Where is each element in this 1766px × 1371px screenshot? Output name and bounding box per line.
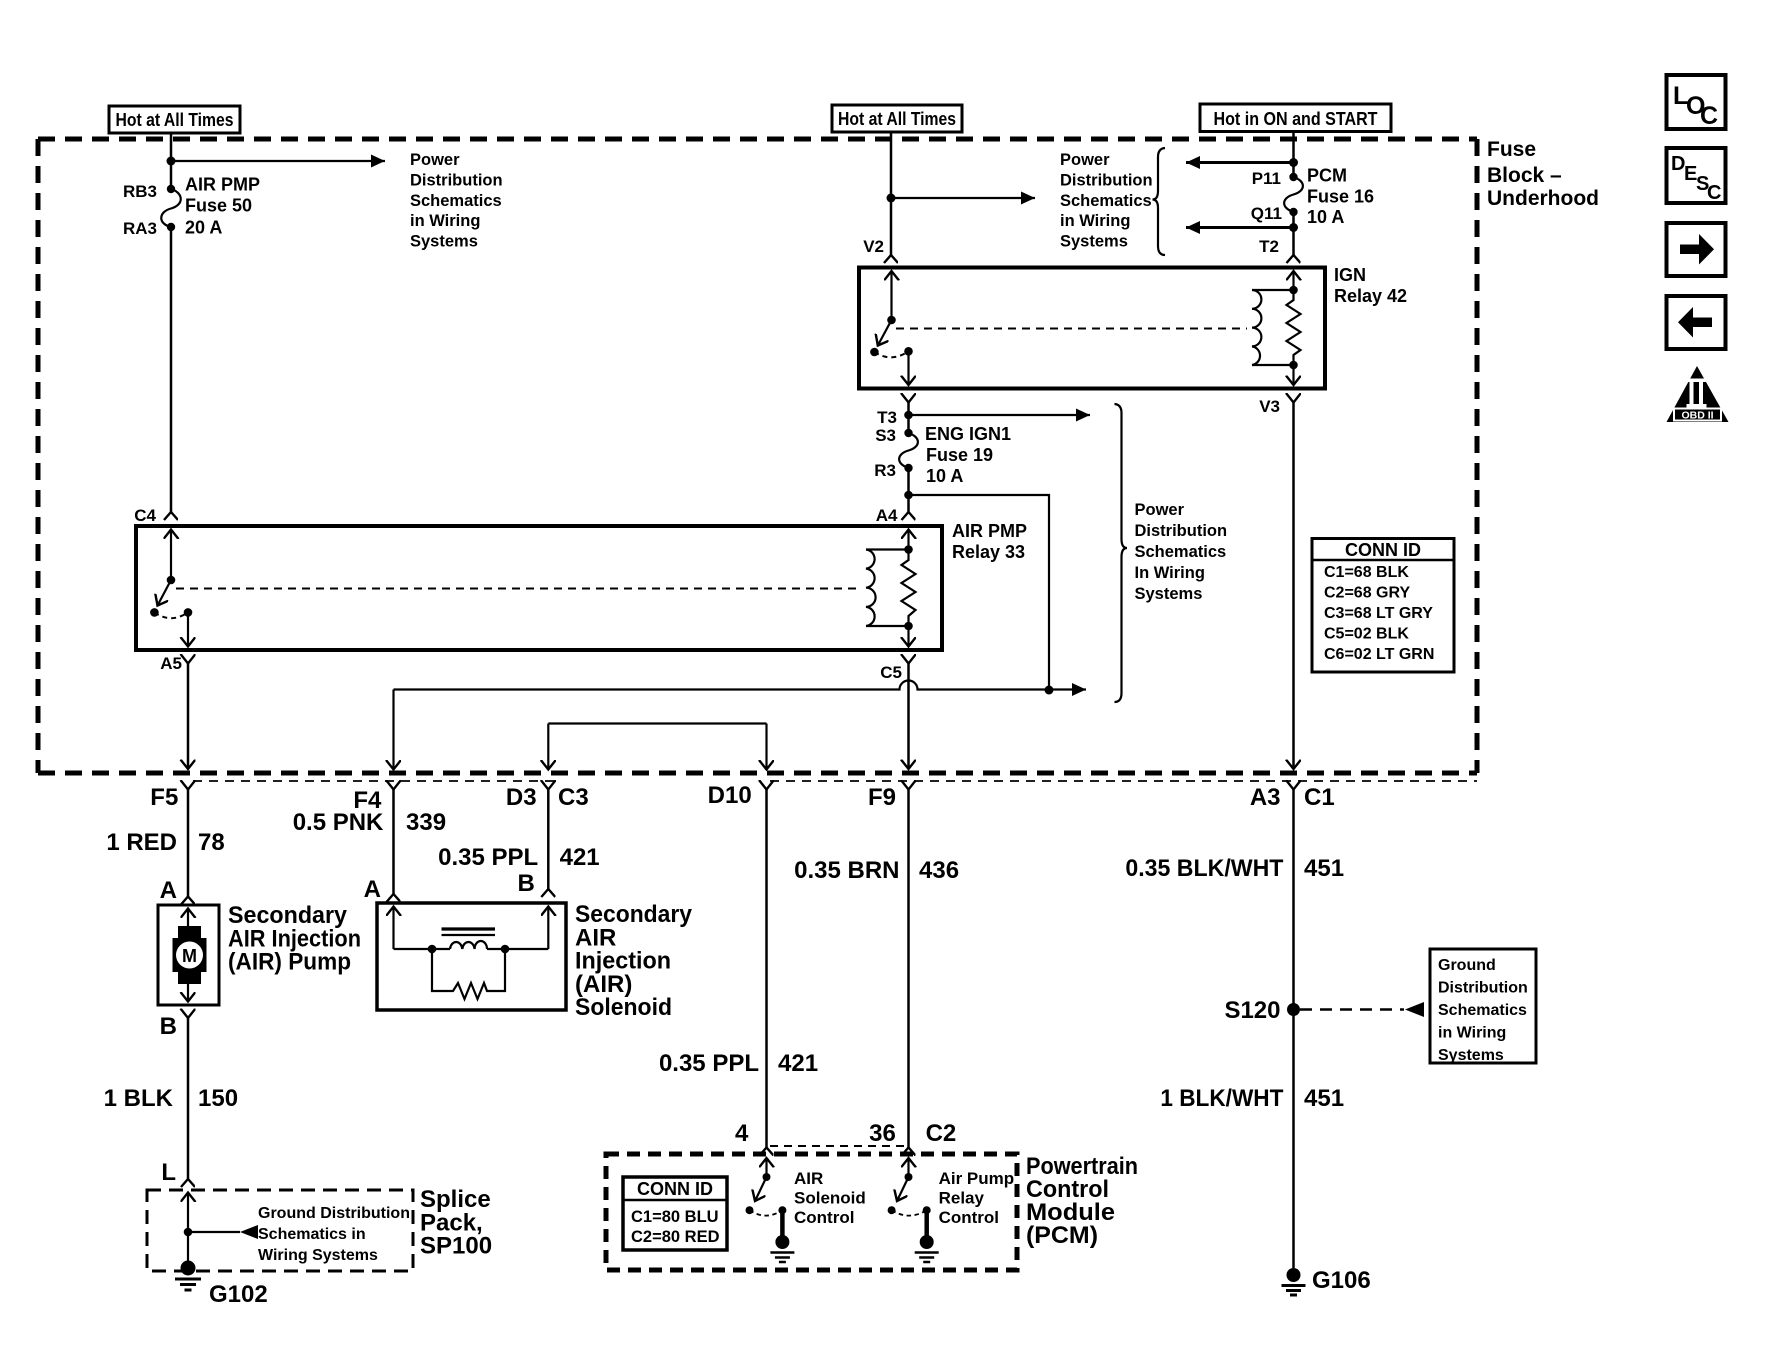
PCM dashed box <box>606 1154 1017 1270</box>
label ENG IGN1 Fuse 19 10 A <box>925 424 1011 486</box>
svg-text:0.35 BRN: 0.35 BRN <box>794 857 899 884</box>
label PCM Fuse 16 10 A <box>1307 166 1374 228</box>
node relay 33 coil bottom <box>904 622 913 631</box>
svg-text:Hot at All Times: Hot at All Times <box>116 110 234 130</box>
svg-text:CONN ID: CONN ID <box>637 1179 713 1199</box>
wire F4 drop from bus to border <box>392 690 394 770</box>
svg-text:Distribution: Distribution <box>1060 171 1153 189</box>
resistor relay 42 internal <box>1287 290 1301 365</box>
wire to ground (pin 36 driver) <box>924 1210 929 1242</box>
svg-text:T3: T3 <box>877 408 897 427</box>
icon arrow right <box>1667 223 1726 276</box>
node T3 branch <box>904 411 913 420</box>
ground G102 <box>175 1261 268 1309</box>
svg-text:Fuse 19: Fuse 19 <box>926 445 993 465</box>
wire arrow left (upper) to Power Distribution <box>1186 161 1294 164</box>
svg-text:in Wiring: in Wiring <box>1438 1025 1506 1042</box>
wire C3 drop from bridge to border <box>547 724 549 770</box>
connector A3/C1 <box>1292 790 1295 1269</box>
connector F9 <box>907 790 910 1148</box>
node junction top left <box>167 157 176 166</box>
solenoid core lines <box>442 927 496 930</box>
label Hot at All Times (left) <box>109 106 240 133</box>
switch contact output (pin 4) <box>778 1206 786 1214</box>
svg-text:Fuse: Fuse <box>1487 138 1536 161</box>
svg-text:C2=68 GRY: C2=68 GRY <box>1324 585 1410 602</box>
reference box Ground Distribution Schematics in Wiring Systems <box>1430 949 1536 1064</box>
svg-text:Systems: Systems <box>1438 1047 1504 1064</box>
wire from Hot at All Times down to fuse 50 <box>170 133 173 189</box>
switch contact output (pin 36) <box>923 1206 931 1214</box>
relay 42 coil feed entry (from T2) <box>1292 271 1294 290</box>
svg-text:OBD II: OBD II <box>1681 410 1713 422</box>
svg-text:Underhood: Underhood <box>1487 187 1599 210</box>
fuse AIR PMP Fuse 50 element <box>161 189 181 227</box>
wire splice to ground distribution reference <box>188 1231 240 1233</box>
svg-text:A3: A3 <box>1250 784 1281 811</box>
label Hot in ON and START <box>1200 104 1391 132</box>
wire from Hot at All Times (middle) down to V2 <box>890 132 893 255</box>
node bus / A4 elbow junction <box>1045 686 1054 695</box>
svg-text:S120: S120 <box>1224 997 1280 1024</box>
relay 42 switch arm <box>878 320 892 346</box>
node P11 branch <box>1289 158 1298 167</box>
svg-text:421: 421 <box>560 844 600 871</box>
relay 42 switch contact (output) <box>904 347 913 356</box>
svg-text:4: 4 <box>735 1120 749 1147</box>
fuse ENG IGN1 Fuse 19 element <box>899 433 918 468</box>
relay 42 switch common entry (from V2) <box>890 271 892 320</box>
relay 42 switch actuated-position dashed arc <box>874 351 908 357</box>
svg-text:V2: V2 <box>863 237 884 256</box>
label IGN Relay 42 <box>1334 265 1407 306</box>
wire relay 33 coil return to box bottom <box>907 626 909 647</box>
solenoid coil rail <box>394 948 451 950</box>
label Power Distribution Schematics in Wiring Systems (top left) <box>410 151 503 251</box>
node A4 branch <box>904 491 913 500</box>
wire out of pump <box>187 984 189 1002</box>
svg-text:RA3: RA3 <box>123 219 157 238</box>
PCM driver: AIR Solenoid Control switch entry <box>765 1158 767 1177</box>
connector F4 <box>392 790 395 895</box>
svg-text:Hot at All Times: Hot at All Times <box>838 109 956 129</box>
label Secondary AIR Injection (AIR) Pump <box>228 902 361 976</box>
svg-text:Schematics: Schematics <box>1438 1002 1527 1019</box>
svg-text:C1: C1 <box>1304 784 1335 811</box>
relay 42 coil top stub <box>1252 289 1294 291</box>
fuse F16 terminal Q11 <box>1289 208 1297 216</box>
svg-text:T2: T2 <box>1259 237 1279 256</box>
fuse PCM Fuse 16 terminal P11 <box>1289 173 1297 181</box>
svg-text:1 BLK/WHT: 1 BLK/WHT <box>1160 1085 1283 1112</box>
svg-text:in Wiring: in Wiring <box>410 212 480 230</box>
PCM CONN ID table <box>623 1177 727 1250</box>
fuse F50 terminal RB3 <box>167 185 175 193</box>
svg-text:C3=68 LT GRY: C3=68 LT GRY <box>1324 605 1433 622</box>
splice pack dashed box <box>147 1190 413 1271</box>
svg-text:Relay 33: Relay 33 <box>952 542 1025 562</box>
svg-text:RB3: RB3 <box>123 182 157 201</box>
node S120 <box>1287 1003 1300 1016</box>
svg-text:IGN: IGN <box>1334 265 1366 285</box>
svg-text:Block –: Block – <box>1487 164 1562 187</box>
svg-text:A5: A5 <box>160 654 182 673</box>
wire fuse 19 to connector A4 <box>907 468 910 512</box>
fuse F19 terminal R3 <box>904 464 912 472</box>
svg-text:G106: G106 <box>1312 1267 1371 1294</box>
wire arrow to Power Distribution Schematics (top middle) <box>891 197 1035 199</box>
svg-text:Schematics: Schematics <box>410 192 502 210</box>
svg-text:Q11: Q11 <box>1251 204 1282 223</box>
relay 33 switch common entry (from C4) <box>170 530 172 581</box>
svg-text:D10: D10 <box>708 782 752 809</box>
svg-text:Power: Power <box>410 151 460 169</box>
svg-text:Ground Distribution: Ground Distribution <box>258 1205 410 1222</box>
svg-text:451: 451 <box>1304 855 1344 882</box>
relay 33 coil top stub <box>866 548 909 550</box>
wire solenoid pin A entry <box>392 907 394 950</box>
svg-text:P11: P11 <box>1252 169 1281 188</box>
svg-text:C6=02 LT GRN: C6=02 LT GRN <box>1324 646 1434 663</box>
svg-text:Distribution: Distribution <box>410 171 503 189</box>
brace for P11/Q11 Power Distribution reference <box>1153 148 1166 255</box>
node solenoid coil left <box>428 945 437 954</box>
svg-text:Power: Power <box>1135 501 1185 519</box>
svg-text:Solenoid: Solenoid <box>575 994 672 1021</box>
relay 33 coil winding <box>866 550 876 627</box>
relay 33 switch contact (output) <box>184 608 193 617</box>
switch arm (pin 36) <box>897 1177 909 1201</box>
wire arrow to Power Distribution Schematics (top left) <box>171 160 385 162</box>
relay box IGN Relay 42 <box>859 268 1325 389</box>
label Power Distribution Schematics In Wiring Systems (middle right) <box>1135 501 1228 603</box>
svg-text:S3: S3 <box>875 426 896 445</box>
svg-text:PCM: PCM <box>1307 166 1347 186</box>
node Q11 branch <box>1289 223 1298 232</box>
relay box AIR PMP Relay 33 <box>136 526 942 650</box>
svg-text:V3: V3 <box>1259 397 1280 416</box>
label Powertrain Control Module (PCM) <box>1026 1153 1138 1249</box>
PCM connector C2 thin dashed line <box>770 1145 905 1147</box>
wire arrow right from T3 to Power Distribution <box>909 414 1091 416</box>
svg-text:Distribution: Distribution <box>1135 522 1228 540</box>
svg-text:C: C <box>1700 102 1718 130</box>
wire solenoid pin B entry <box>547 907 549 950</box>
label AIR Solenoid Control <box>794 1169 866 1227</box>
label Splice Pack, SP100 <box>420 1186 492 1260</box>
svg-text:C: C <box>1707 182 1721 204</box>
svg-text:M: M <box>182 946 197 966</box>
svg-text:in Wiring: in Wiring <box>1060 212 1130 230</box>
svg-text:Hot in ON and START: Hot in ON and START <box>1214 109 1378 129</box>
svg-text:B: B <box>160 1013 177 1040</box>
node relay 33 coil top <box>904 545 913 554</box>
label Hot at All Times (middle) <box>832 105 962 132</box>
connector F5 <box>187 790 190 897</box>
node solenoid coil right <box>501 945 510 954</box>
svg-text:Ground: Ground <box>1438 957 1496 974</box>
component box AIR solenoid <box>377 903 566 1010</box>
svg-text:C2=80 RED: C2=80 RED <box>631 1228 720 1246</box>
svg-text:Schematics: Schematics <box>1135 543 1227 561</box>
resistor solenoid suppression <box>432 949 505 999</box>
solenoid coil winding <box>450 941 487 949</box>
label Fuse Block - Underhood <box>1487 138 1599 210</box>
svg-text:C2: C2 <box>926 1120 957 1147</box>
label Power Distribution Schematics in Wiring Systems (top middle) <box>1060 151 1153 251</box>
svg-text:Relay: Relay <box>939 1189 985 1208</box>
fuse F50 terminal RA3 <box>167 223 175 231</box>
svg-text:AIR: AIR <box>794 1169 823 1188</box>
label AIR PMP Fuse 50 20 A <box>185 175 260 238</box>
svg-text:Wiring Systems: Wiring Systems <box>258 1247 378 1264</box>
svg-text:150: 150 <box>198 1085 238 1112</box>
node relay 42 coil top <box>1289 286 1298 295</box>
svg-text:C3: C3 <box>558 784 589 811</box>
switch arm (pin 4) <box>755 1177 767 1201</box>
relay 42 coil winding <box>1252 290 1261 365</box>
label Air Pump Relay Control <box>939 1169 1015 1227</box>
component box AIR pump <box>158 905 219 1005</box>
svg-text:436: 436 <box>919 857 959 884</box>
svg-text:Power: Power <box>1060 151 1110 169</box>
svg-text:Control: Control <box>794 1208 854 1227</box>
connector T3 (below relay 42) <box>907 403 910 434</box>
svg-text:C5=02 BLK: C5=02 BLK <box>1324 626 1409 643</box>
switch contact rest (pin 4) <box>746 1206 754 1214</box>
svg-text:Schematics in: Schematics in <box>258 1226 366 1243</box>
svg-text:CONN ID: CONN ID <box>1345 540 1421 560</box>
svg-text:1 BLK: 1 BLK <box>104 1085 174 1112</box>
relay 33 switch pivot <box>167 576 176 585</box>
label Ground Distribution Schematics in Wiring Systems (splice) <box>258 1205 410 1264</box>
relay 33 coil feed entry (from A4) <box>907 530 909 550</box>
svg-text:10 A: 10 A <box>926 466 963 486</box>
svg-text:Schematics: Schematics <box>1060 192 1152 210</box>
svg-text:A: A <box>364 876 381 903</box>
relay 33 switch arm <box>158 580 172 606</box>
svg-text:Distribution: Distribution <box>1438 980 1528 997</box>
svg-text:Air Pump: Air Pump <box>939 1169 1015 1188</box>
fuse PCM Fuse 16 element <box>1284 177 1303 212</box>
relay 42 switch contact (rest) <box>870 348 879 357</box>
connector A5 below relay 33 <box>187 664 190 770</box>
svg-text:36: 36 <box>869 1120 896 1147</box>
connector D10 <box>765 790 768 1148</box>
motor M body <box>173 926 207 984</box>
svg-text:Systems: Systems <box>1060 233 1128 251</box>
icon OBD II <box>1667 366 1729 422</box>
wire to ground (pin 4 driver) <box>780 1210 785 1242</box>
svg-text:1 RED: 1 RED <box>106 829 177 856</box>
svg-text:R3: R3 <box>874 461 896 480</box>
wire fuse16 to T2 <box>1292 212 1295 255</box>
wire arrow left (lower) to Power Distribution <box>1186 226 1294 229</box>
svg-text:A4: A4 <box>876 506 898 525</box>
svg-text:AIR PMP: AIR PMP <box>185 175 260 195</box>
svg-text:(PCM): (PCM) <box>1026 1222 1098 1249</box>
svg-text:(AIR) Pump: (AIR) Pump <box>228 949 351 976</box>
wire relay 42 output to box bottom <box>907 351 909 385</box>
svg-text:20 A: 20 A <box>185 218 222 238</box>
svg-text:10 A: 10 A <box>1307 207 1344 227</box>
icon arrow left <box>1667 296 1726 349</box>
svg-text:421: 421 <box>778 1050 818 1077</box>
wire into splice pack <box>187 1193 189 1269</box>
svg-text:Fuse 50: Fuse 50 <box>185 196 252 216</box>
svg-text:Fuse 16: Fuse 16 <box>1307 187 1374 207</box>
icon DESC <box>1667 148 1726 204</box>
wire from Hot in ON and START down <box>1292 132 1295 178</box>
svg-text:0.5 PNK: 0.5 PNK <box>293 809 384 836</box>
svg-text:F5: F5 <box>150 784 178 811</box>
connector B below pump <box>187 1018 190 1179</box>
switch pivot (pin 4) <box>763 1173 771 1181</box>
svg-text:A: A <box>160 877 177 904</box>
svg-text:L: L <box>161 1159 176 1186</box>
connector V3 (below relay 42) + wire down to A3/C1 <box>1292 403 1295 770</box>
resistor relay 33 internal <box>902 550 916 627</box>
svg-text:C1=80 BLU: C1=80 BLU <box>631 1208 719 1226</box>
connector D3/C3 <box>547 790 550 890</box>
fuse ENG IGN1 Fuse 19 terminal S3 <box>904 429 912 437</box>
switch pivot (pin 36) <box>905 1173 913 1181</box>
connector C5 below relay 33, wire to F9 <box>907 664 910 770</box>
svg-text:SP100: SP100 <box>420 1233 492 1260</box>
svg-text:78: 78 <box>198 829 225 856</box>
relay 33 actuation dashed link <box>176 588 861 590</box>
svg-text:Systems: Systems <box>1135 585 1203 603</box>
ground (PCM pin 4 driver) <box>770 1235 794 1262</box>
svg-text:B: B <box>518 870 535 897</box>
svg-text:451: 451 <box>1304 1085 1344 1112</box>
relay 33 coil bottom stub <box>866 625 909 627</box>
ground G106 <box>1282 1267 1371 1295</box>
svg-text:G102: G102 <box>209 1281 268 1308</box>
wire fuse 50 to connector C4 <box>170 227 173 512</box>
svg-text:In Wiring: In Wiring <box>1135 564 1205 582</box>
svg-text:Relay 42: Relay 42 <box>1334 286 1407 306</box>
fuse block bottom connector thin dashed line <box>193 780 557 782</box>
wire ignition feed bus (A4 to F4 drop and reference arrow), hops over C5 wire <box>394 681 1087 690</box>
wire into pump <box>187 909 189 927</box>
svg-text:D3: D3 <box>506 784 537 811</box>
relay 42 coil bottom stub <box>1252 364 1294 366</box>
relay 42 switch pivot <box>887 316 896 325</box>
wire D10 drop from bridge to border <box>765 724 767 770</box>
node splice junction <box>184 1228 193 1237</box>
wire A4 elbow to ignition feed bus <box>909 495 1050 690</box>
svg-text:Solenoid: Solenoid <box>794 1189 866 1208</box>
svg-text:C4: C4 <box>134 506 156 525</box>
label Secondary AIR Injection (AIR) Solenoid <box>575 901 693 1021</box>
wire C3-D10 jumper bridge <box>548 722 766 724</box>
switch dashed arc (pin 36) <box>892 1210 927 1215</box>
svg-text:339: 339 <box>406 809 446 836</box>
relay 33 switch actuated-position dashed arc <box>154 612 188 618</box>
relay 42 actuation dashed link <box>896 328 1247 330</box>
icon LOC <box>1667 75 1726 130</box>
svg-text:Control: Control <box>939 1208 999 1227</box>
node relay 42 coil bottom <box>1289 361 1298 370</box>
svg-text:0.35 PPL: 0.35 PPL <box>438 844 538 871</box>
dashed wire S120 to ground distribution reference <box>1300 1008 1404 1011</box>
svg-text:ENG IGN1: ENG IGN1 <box>925 424 1011 444</box>
svg-text:C1=68 BLK: C1=68 BLK <box>1324 564 1409 581</box>
node junction middle feed <box>887 194 896 203</box>
switch dashed arc (pin 4) <box>750 1210 783 1215</box>
svg-text:F9: F9 <box>868 784 896 811</box>
label AIR PMP Relay 33 <box>952 521 1027 562</box>
svg-text:0.35 PPL: 0.35 PPL <box>659 1050 759 1077</box>
PCM driver: Air Pump Relay Control switch entry <box>907 1158 909 1177</box>
brace Power Distribution Schematics In Wiring Systems (middle right) <box>1115 404 1128 702</box>
fuse block underhood dashed border <box>38 139 1477 773</box>
relay 33 switch contact (rest) <box>150 608 159 617</box>
ground (PCM pin 36 driver) <box>915 1235 939 1262</box>
switch contact rest (pin 36) <box>888 1206 896 1214</box>
wire relay 33 output to box bottom <box>187 612 189 646</box>
svg-text:AIR PMP: AIR PMP <box>952 521 1027 541</box>
svg-text:0.35 BLK/WHT: 0.35 BLK/WHT <box>1125 855 1283 882</box>
svg-text:C5: C5 <box>880 663 902 682</box>
svg-text:Systems: Systems <box>410 233 478 251</box>
wire relay 42 coil return to box bottom <box>1292 365 1294 385</box>
